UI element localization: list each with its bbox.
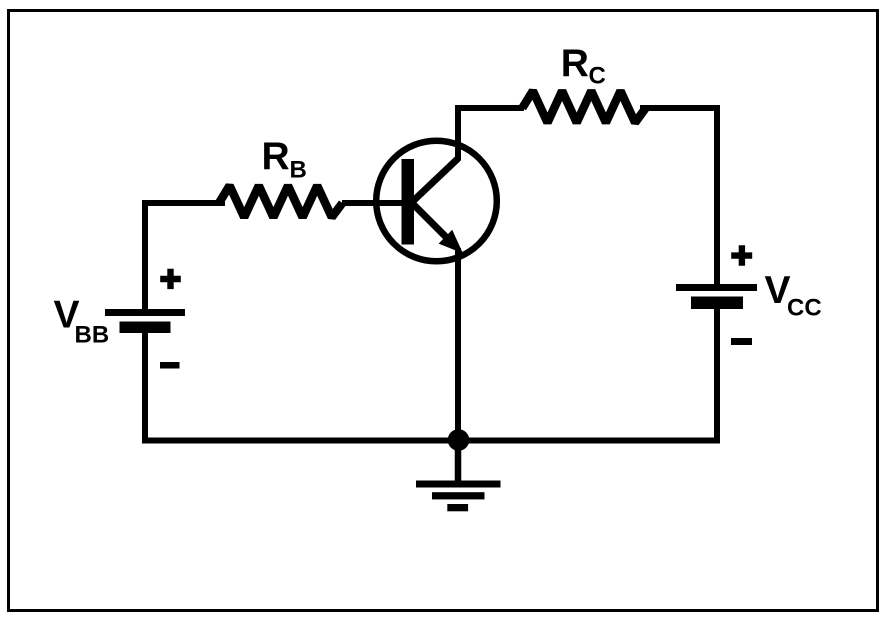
wire: collector vertical	[455, 108, 461, 160]
node junction dot	[448, 429, 470, 451]
svg-text:R: R	[262, 135, 290, 178]
svg-text:R: R	[561, 42, 589, 85]
resistor RB	[219, 186, 342, 218]
battery VCC short plate	[691, 297, 743, 310]
resistor RC	[522, 91, 645, 123]
wire: RB to base	[342, 200, 407, 206]
battery VCC long plate	[676, 284, 757, 291]
battery VBB long plate	[105, 309, 185, 316]
battery VBB short plate	[120, 322, 171, 334]
wire: VBB bottom to bottom-left corner	[142, 330, 148, 443]
svg-text:BB: BB	[75, 321, 110, 348]
svg-text:B: B	[290, 157, 307, 184]
svg-text:C: C	[589, 63, 606, 90]
ground	[455, 443, 462, 481]
transistor Q1 circle	[376, 141, 497, 262]
transistor Q1 collector lead	[411, 158, 459, 203]
wire: top horizontal to RC	[455, 105, 524, 111]
transistor Q1 emitter lead	[411, 202, 452, 243]
svg-text:CC: CC	[787, 295, 822, 322]
transistor Q1 emitter arrowhead	[440, 232, 461, 252]
battery VCC plus sign	[731, 245, 752, 266]
transistor Q1 base bar	[402, 159, 415, 245]
wire: VCC to bottom right corner and bottom wire	[145, 308, 717, 441]
wire: emitter vertical to ground node	[455, 248, 461, 440]
wire: RC to VCC (top right corner, right vertical)	[643, 108, 717, 287]
battery VBB plus sign	[160, 269, 181, 289]
battery VBB minus sign	[160, 362, 180, 369]
battery VCC minus sign	[731, 338, 752, 345]
wire: VBB top to RB (left top corner)	[145, 203, 222, 312]
